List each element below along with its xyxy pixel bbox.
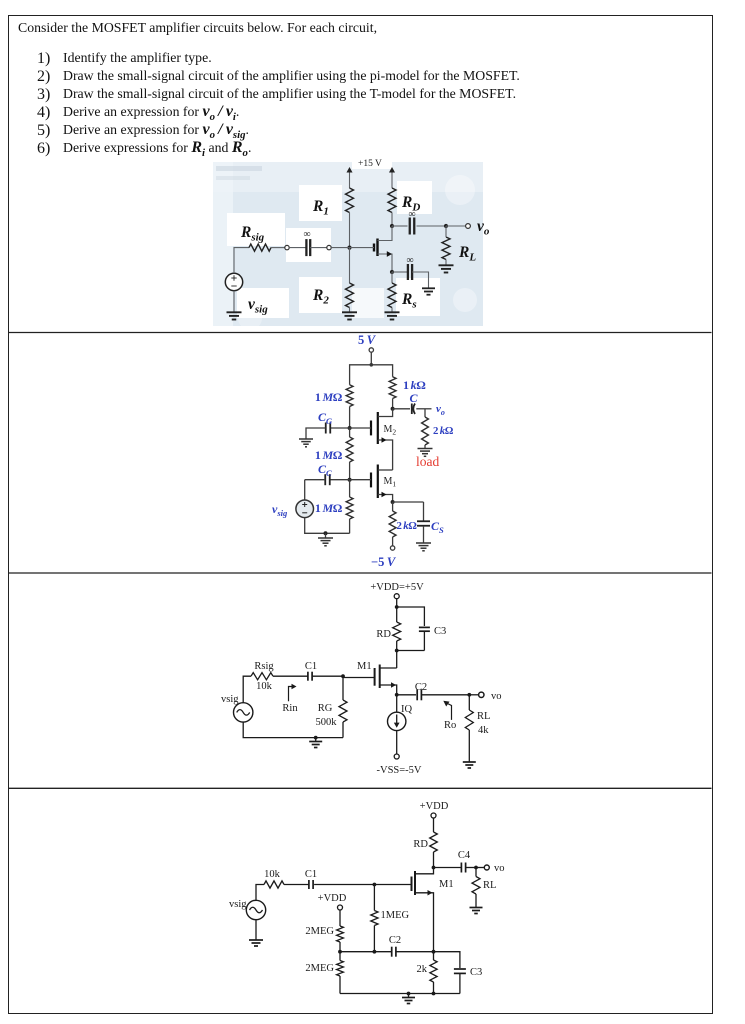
wire to M2 gate node — [349, 407, 351, 429]
node 2k bottom — [432, 992, 436, 996]
svg-text:vo: vo — [477, 218, 490, 238]
svg-text:−5 V: −5 V — [371, 555, 397, 569]
capacitor C3 circuit4 — [454, 968, 466, 970]
wire supply rail RD branch — [391, 172, 393, 188]
svg-text:Ro: Ro — [444, 720, 456, 731]
wire supply rail R1 branch — [349, 172, 351, 188]
svg-text:RD: RD — [413, 839, 428, 850]
wire Rs to ground — [391, 308, 393, 313]
mosfet M1 circuit4 — [415, 868, 434, 874]
capacitor CS — [423, 502, 425, 521]
terminal VSS — [394, 754, 399, 759]
capacitor C4 — [460, 863, 462, 873]
ground bottom circuit3 — [315, 738, 317, 742]
svg-text:RD: RD — [376, 629, 391, 640]
svg-text:5 V: 5 V — [358, 333, 377, 347]
svg-text:vsig: vsig — [272, 502, 288, 518]
source vsig circuit4 — [246, 900, 265, 919]
wire input cap to terminal — [310, 247, 327, 249]
capacitor input coupling (infinity) — [305, 239, 307, 256]
wire 5V stem — [370, 352, 372, 365]
resistor 2kohm source — [392, 502, 394, 511]
wire C2 to source node — [396, 951, 434, 953]
ground below CG — [299, 438, 313, 440]
wire VDD stem — [396, 599, 398, 607]
section divider line 1 — [8, 332, 712, 334]
terminal VDD circuit3 — [394, 594, 399, 599]
resistor R 1kohm — [389, 377, 396, 399]
resistor RD circuit3 — [396, 607, 398, 622]
svg-text:1 MΩ: 1 MΩ — [315, 390, 343, 404]
terminal vo circuit4 — [484, 865, 489, 870]
node RD C3 top — [395, 605, 399, 609]
node M1 source — [391, 500, 395, 504]
svg-text:C1: C1 — [305, 869, 317, 880]
resistor Rs — [388, 283, 396, 308]
mosfet Q1 — [373, 244, 375, 252]
svg-text:RL: RL — [483, 880, 496, 891]
svg-text:2MEG: 2MEG — [305, 963, 334, 974]
wire bias node to C2 — [340, 951, 391, 953]
svg-text:-VSS=-5V: -VSS=-5V — [376, 765, 421, 776]
svg-text:C3: C3 — [434, 626, 446, 637]
ground below RL circuit3 — [463, 761, 476, 763]
wire bypass cap to ground — [412, 272, 428, 288]
resistor Rsig — [249, 244, 271, 251]
svg-text:2 kΩ: 2 kΩ — [433, 425, 454, 437]
node M2 drain — [391, 407, 395, 411]
capacitor CG — [331, 427, 350, 429]
wire gate node to R middle — [349, 428, 351, 437]
arrow Ro — [448, 704, 452, 720]
wire gate line circuit3 — [343, 677, 375, 679]
wire bottom rail circuit4 — [340, 993, 460, 995]
resistor RL circuit4 — [475, 868, 477, 877]
wire gate line — [350, 247, 375, 249]
node RD C3 bottom — [395, 649, 399, 653]
wire C3 bottom join — [397, 650, 425, 652]
svg-text:1MEG: 1MEG — [381, 910, 410, 921]
wire vsig to ground — [233, 291, 235, 313]
svg-text:vsig: vsig — [221, 694, 239, 705]
wire Rsig to terminal — [271, 247, 285, 249]
wire gate node to R2 — [349, 248, 351, 283]
wire R middle to M1 gate node — [349, 462, 351, 480]
ground below bypass cap — [422, 287, 435, 289]
svg-text:+VDD=+5V: +VDD=+5V — [370, 582, 424, 593]
wire M1 gate node to R lower — [349, 480, 351, 497]
source vsig circuit2 — [304, 480, 306, 500]
svg-text:10k: 10k — [256, 681, 273, 692]
svg-text:C3: C3 — [470, 967, 482, 978]
wire vsig up circuit4 — [256, 885, 264, 901]
capacitor C output — [393, 408, 410, 410]
svg-text:Rsig: Rsig — [254, 661, 274, 672]
wire vsig up to Rsig — [243, 676, 251, 703]
svg-text:1 MΩ: 1 MΩ — [315, 448, 343, 462]
wire RD to drain node — [391, 213, 393, 227]
svg-text:4k: 4k — [478, 725, 489, 736]
section divider line 3 — [8, 787, 712, 789]
capacitor C1 circuit4 — [308, 880, 310, 889]
node gate circuit3 — [341, 674, 345, 678]
wire R lower to bottom rail — [349, 519, 351, 533]
svg-text:C1: C1 — [305, 661, 317, 672]
svg-text:M1: M1 — [439, 879, 454, 890]
node source — [390, 270, 394, 274]
wire source to Rs — [391, 272, 393, 283]
svg-text:vo: vo — [494, 863, 505, 874]
capacitor C1 circuit3 — [307, 672, 309, 681]
wire R1 to gate node — [349, 213, 351, 248]
svg-text:C2: C2 — [415, 682, 427, 693]
wire to vo terminal — [469, 694, 478, 696]
section divider line 2 — [8, 572, 712, 574]
svg-text:CG: CG — [318, 410, 333, 426]
resistor R2 — [346, 283, 354, 308]
svg-text:IQ: IQ — [401, 704, 412, 715]
source vsig — [225, 273, 242, 290]
ground below CS — [416, 542, 431, 544]
resistor RD — [388, 188, 396, 213]
svg-text:M1: M1 — [357, 661, 372, 672]
resistor R1 — [346, 188, 354, 213]
node M2 gate — [348, 426, 352, 430]
resistor R 1Mohm upper — [346, 385, 353, 407]
svg-text:+VDD: +VDD — [318, 893, 347, 904]
wire source to bypass cap — [392, 271, 407, 273]
wire C1 to gate node — [312, 675, 343, 677]
resistor Rsig circuit3 — [251, 673, 273, 680]
capacitor source bypass (infinity) — [407, 264, 409, 280]
mosfet M2 — [370, 421, 372, 436]
wire drain to output cap — [392, 225, 408, 227]
svg-text:M1: M1 — [384, 476, 397, 489]
wire cap to RL node — [417, 225, 447, 227]
arrow Rin — [289, 687, 294, 702]
node gate junction — [347, 246, 351, 250]
node bottom ground circuit3 — [314, 736, 318, 740]
terminal vo circuit3 — [479, 692, 484, 697]
capacitor C3 circuit3 — [419, 626, 430, 628]
wire RL to ground — [445, 226, 447, 237]
ground below 2k load — [418, 448, 433, 450]
wire source node to C3 — [434, 952, 460, 968]
node top rail — [370, 363, 374, 367]
mosfet M1 circuit2 — [370, 473, 372, 488]
svg-text:+15 V: +15 V — [358, 159, 382, 169]
svg-text:C2: C2 — [389, 935, 401, 946]
svg-text:load: load — [416, 454, 439, 469]
wire vsig to ground circuit4 — [255, 920, 257, 940]
wire to vo terminal circuit4 — [476, 867, 484, 869]
capacitor C2 circuit3 — [416, 689, 418, 700]
resistor 2k circuit4 — [433, 952, 435, 960]
svg-text:2MEG: 2MEG — [305, 926, 334, 937]
node 1MEG top — [373, 883, 377, 887]
svg-text:10k: 10k — [264, 869, 281, 880]
node M1 source circuit3 — [395, 693, 399, 697]
ground below RL circuit4 — [470, 907, 483, 909]
node drain circuit4 — [432, 866, 436, 870]
node RL circuit3 — [467, 693, 471, 697]
wire drain to C4 — [434, 867, 462, 869]
ground bottom circuit4 — [408, 994, 410, 998]
node M1 gate — [348, 478, 352, 482]
wire bottom rail circuit3 — [243, 722, 343, 738]
ground below vsig circuit4 — [249, 939, 263, 941]
node source circuit4 — [432, 950, 436, 954]
wire vsig to bottom rail — [305, 518, 350, 534]
wire to output terminal — [446, 225, 466, 227]
wire top rail to C3 — [397, 607, 425, 626]
svg-text:∞: ∞ — [408, 209, 415, 220]
ground below R2 — [342, 311, 357, 313]
svg-text:1 MΩ: 1 MΩ — [315, 501, 343, 515]
mosfet M1 circuit3 — [396, 651, 398, 669]
svg-text:C4: C4 — [458, 850, 471, 861]
svg-text:M2: M2 — [384, 424, 397, 437]
resistor 1MEG — [373, 885, 375, 911]
svg-text:vsig: vsig — [229, 899, 247, 910]
circuit 1 white label patches — [352, 155, 392, 169]
wire 1k to drain node — [392, 399, 394, 409]
resistor 2MEG lower — [339, 952, 341, 961]
wire terminal to gate node — [331, 247, 349, 249]
terminal VDD left circuit4 — [338, 905, 343, 910]
resistor RG — [342, 676, 344, 700]
source vsig circuit3 — [234, 703, 253, 722]
resistor RL circuit3 — [468, 695, 470, 710]
node bottom rail ground — [324, 531, 328, 535]
wire terminal to input cap — [289, 247, 306, 249]
node bias junction — [338, 950, 342, 954]
svg-text:RL: RL — [477, 711, 490, 722]
resistor R 1Mohm lower — [346, 497, 353, 519]
svg-text:+VDD: +VDD — [420, 801, 449, 812]
node vo circuit4 — [474, 866, 478, 870]
wire top rail — [350, 365, 393, 385]
svg-text:∞: ∞ — [406, 255, 413, 266]
wire M1 source right — [393, 501, 424, 503]
node bottom ground circuit4 — [407, 992, 411, 996]
resistor 10k circuit4 — [264, 881, 284, 888]
svg-text:vo: vo — [491, 691, 502, 702]
current source IQ — [396, 695, 398, 713]
node drain — [390, 224, 394, 228]
svg-text:Rin: Rin — [282, 703, 298, 714]
svg-text:vo: vo — [436, 403, 445, 417]
svg-text:500k: 500k — [316, 717, 338, 728]
svg-text:2 kΩ: 2 kΩ — [397, 520, 418, 532]
wire C4 to vo node — [466, 867, 476, 869]
wire R2 to ground — [349, 308, 351, 313]
wire Rsig to C1 — [273, 675, 308, 677]
node RL junction — [444, 224, 448, 228]
svg-text:1 kΩ: 1 kΩ — [403, 378, 426, 392]
svg-text:CC: CC — [318, 462, 332, 478]
svg-text:RG: RG — [318, 703, 333, 714]
resistor RL — [442, 237, 450, 260]
wire 10k to C1 circuit4 — [284, 884, 309, 886]
capacitor CC — [331, 479, 350, 481]
svg-text:∞: ∞ — [303, 229, 310, 240]
svg-text:2k: 2k — [417, 964, 428, 975]
terminal input left — [285, 245, 289, 249]
ground below Rs — [385, 311, 400, 313]
resistor 2kohm load — [424, 409, 426, 417]
wire source to C2 — [397, 694, 416, 696]
circuit 1 background image — [213, 162, 483, 326]
ground below vsig — [227, 311, 242, 313]
wire gate line circuit4 — [314, 884, 411, 886]
node 1MEG bottom — [373, 950, 377, 954]
ground bottom rail — [325, 533, 327, 538]
resistor RD circuit4 — [433, 818, 435, 832]
resistor 2MEG upper — [339, 910, 341, 926]
capacitor output coupling (infinity) — [409, 218, 411, 235]
terminal 5V — [369, 348, 373, 352]
wire vsig to Rsig — [234, 248, 249, 274]
wire C2 to RL node — [421, 694, 469, 696]
resistor R 1Mohm middle — [346, 437, 353, 462]
terminal VDD top circuit4 — [431, 813, 436, 818]
terminal vo — [466, 224, 471, 229]
ground below RL — [439, 264, 454, 266]
svg-text:CS: CS — [431, 519, 444, 535]
terminal -5V — [390, 546, 394, 550]
terminal input right — [327, 245, 331, 249]
svg-text:C: C — [409, 391, 418, 405]
capacitor C2 circuit4 — [391, 947, 393, 957]
